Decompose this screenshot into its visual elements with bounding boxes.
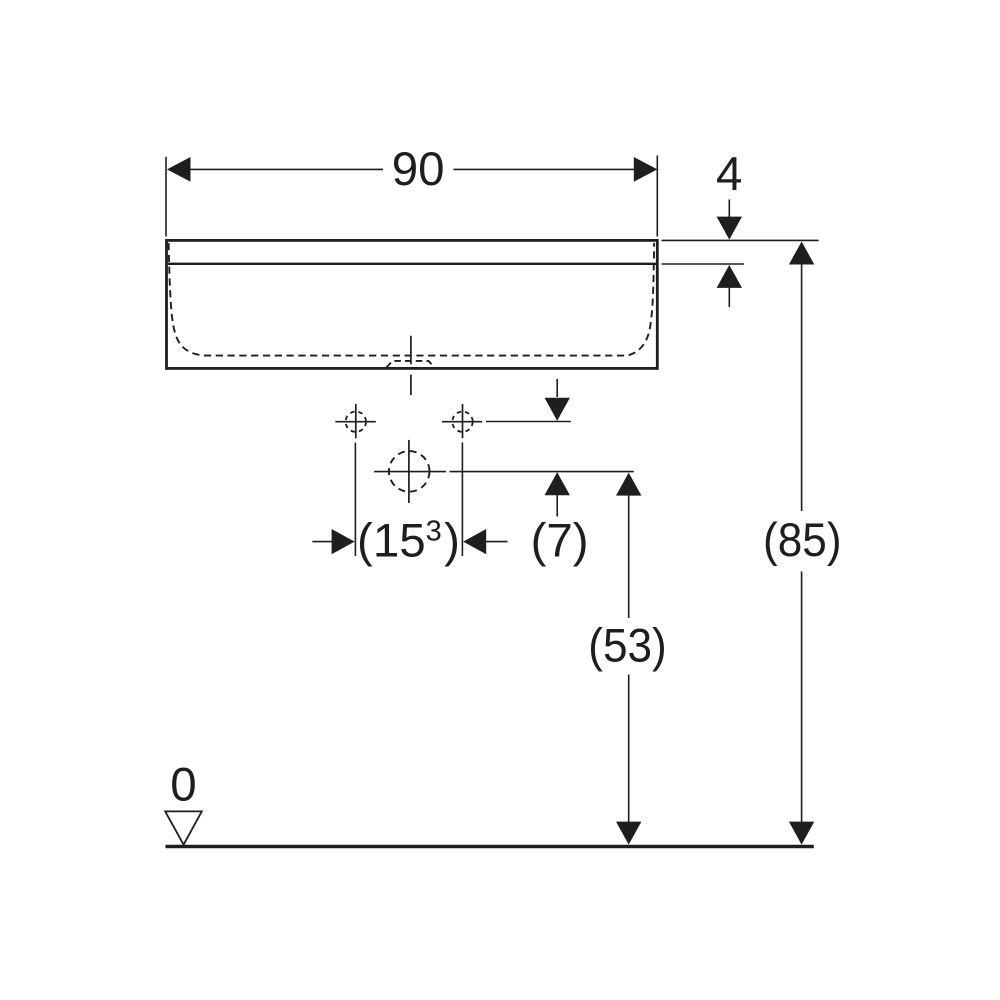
dim 85 line upper [801, 264, 803, 511]
drain centre line [410, 336, 412, 395]
dim 4 leader above [728, 200, 730, 218]
tap level extension line [486, 421, 571, 423]
tap hole left dashed circle [346, 412, 366, 432]
washbasin outer body [167, 240, 658, 368]
washbasin inner bowl (hidden, dashed) [169, 243, 654, 356]
dim 4 arrow up [717, 265, 742, 288]
dim 85 line lower [801, 572, 803, 823]
svg-text:(153): (153) [357, 515, 460, 568]
dim 4 arrow down [717, 217, 742, 240]
svg-text:(7): (7) [531, 515, 589, 568]
dim 7 leader above [556, 379, 558, 397]
dim 85 arrow up [789, 242, 814, 265]
dim 15-3 leader left [312, 541, 332, 543]
dim 53 arrow up [616, 473, 641, 496]
tap hole right dashed circle [452, 412, 472, 432]
dim 53 arrow down [616, 822, 641, 845]
dim 15-3 arrow right-pointing [332, 529, 355, 554]
tap hole left centre cross [335, 404, 376, 438]
washbasin rim line [167, 263, 657, 265]
tap hole right centre cross [442, 404, 482, 438]
dim 90 arrow right [634, 157, 658, 182]
dim 4 extension line top [662, 239, 819, 241]
dim 85 arrow down [789, 822, 814, 845]
floor line [166, 845, 814, 848]
dim 53 line lower [628, 675, 630, 823]
svg-text:4: 4 [716, 148, 742, 201]
dim 4 extension line rim [662, 263, 745, 265]
svg-text:90: 90 [392, 143, 445, 196]
drain outlet (hidden, dashed) [387, 361, 435, 368]
dim 7 leader below [556, 494, 558, 516]
dim 90 extension line left [165, 157, 167, 237]
svg-text:(53): (53) [588, 620, 667, 673]
dim 7 arrow down [545, 398, 570, 421]
datum triangle [165, 811, 202, 844]
dim 90 arrow left [167, 157, 191, 182]
dim 15-3 leader right [485, 541, 507, 543]
svg-text:(85): (85) [763, 514, 842, 567]
dim 15-3 extension line left [354, 443, 356, 557]
dim 90 line [189, 168, 635, 170]
drain hole dashed circle [389, 451, 430, 492]
drain hole vertical centre line [408, 440, 410, 503]
dim 90 extension line right [656, 156, 658, 237]
drain level horizontal line [374, 471, 634, 473]
svg-text:0: 0 [170, 758, 196, 811]
dim 15-3 extension line right [461, 443, 463, 557]
dim 15-3 arrow left-pointing [463, 529, 486, 554]
dim 4 leader below [728, 287, 730, 307]
dim 53 line upper [628, 496, 630, 619]
dim 7 arrow up [545, 472, 570, 495]
